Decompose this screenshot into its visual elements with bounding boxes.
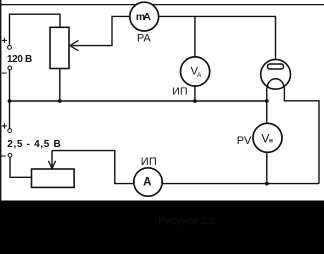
potentiometer R1 wiper arrow and wire to mA meter [70,16,130,45]
svg-text:Рисунок 2.2: Рисунок 2.2 [158,215,215,227]
wire: bus down to battery B2 plus [9,101,11,129]
svg-text:A: A [197,72,202,79]
voltmeter VA circle [181,57,210,86]
svg-text:PA: PA [137,33,151,45]
terminal B2 plus [8,129,12,133]
top frame line [0,4,324,6]
potentiometer R1 body [50,27,69,68]
svg-text:2,5 - 4,5 В: 2,5 - 4,5 В [7,139,61,150]
left frame line [0,0,2,201]
anode plate [268,64,284,69]
caption band [0,201,324,254]
wire: ammeter A to right rail [162,183,319,185]
wire: voltmeter VA top lead [194,16,196,57]
ammeter A circle [134,168,162,196]
filament (cathode) dome [267,79,284,88]
terminal B2 minus [8,153,12,157]
svg-text:A: A [143,177,151,189]
svg-text:+: + [2,36,8,47]
terminal B1 plus [8,46,12,50]
junction VA bottom [193,99,197,103]
svg-text:–: – [1,151,7,162]
wire: filament right leg to right rail [284,88,319,184]
wire: R1 bottom to bus [59,69,61,102]
svg-text:–: – [2,68,8,79]
rheostat R2 wiper arrow [51,151,53,169]
wire: filament left leg to bus [266,88,268,102]
junction R1 bottom [58,99,62,103]
junction bus left [8,99,12,103]
svg-text:ИП: ИП [141,156,157,168]
junction Vн bottom [265,182,269,186]
rheostat R2 body [32,169,75,187]
wire: battery B1 plus to potentiometer R1 top [10,14,61,46]
svg-text:mA: mA [136,11,151,23]
vacuum diode VL1 envelope [261,59,291,89]
wire: Vн top lead to bus [266,101,268,123]
svg-text:н: н [269,138,273,145]
voltmeter Vн circle [253,123,282,152]
common bus wire [10,100,267,102]
wire: R2 wiper to ammeter A [52,151,134,184]
milliammeter PA circle [130,2,159,31]
junction filament left [265,99,269,103]
terminal B1 minus [8,66,12,70]
svg-text:120 В: 120 В [7,54,32,65]
svg-text:+: + [2,122,8,133]
wire: VA bottom lead to bus [194,86,196,101]
svg-text:PV: PV [237,135,252,147]
wire: B2 minus to rheostat R2 left terminal [10,157,32,177]
svg-text:ИП: ИП [172,86,187,98]
wire: Vн bottom lead to bottom wire [266,152,268,183]
wire: mA meter to tube anode [159,16,276,64]
wire: B1 minus down to common bus [9,70,11,101]
